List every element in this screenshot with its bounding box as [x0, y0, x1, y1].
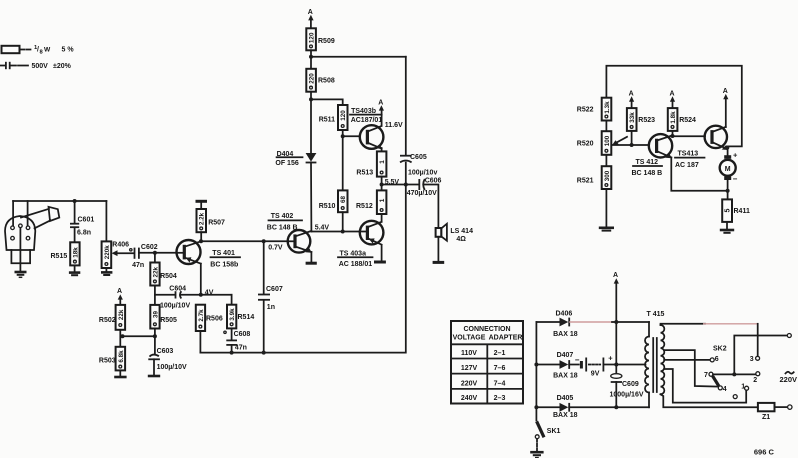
- wire primary top to terminal 3: [661, 324, 706, 325]
- ground pickup: [15, 271, 27, 274]
- svg-text:R515: R515: [51, 253, 68, 260]
- wire tap to terminal 4: [664, 350, 718, 387]
- svg-text:240V: 240V: [461, 395, 478, 402]
- resistor R512: [377, 190, 387, 214]
- svg-text:CONNECTION: CONNECTION: [463, 326, 510, 333]
- wire R503 to ground: [119, 370, 121, 375]
- wiper arrow R520: [616, 137, 627, 143]
- svg-text:D407: D407: [557, 352, 574, 359]
- wire R512 to TS403a collector: [381, 214, 383, 222]
- node R504 top: [153, 251, 157, 255]
- svg-text:500V: 500V: [32, 63, 49, 70]
- svg-text:+: +: [733, 150, 738, 159]
- svg-text:7–6: 7–6: [494, 365, 506, 372]
- svg-text:BC 148 B: BC 148 B: [632, 170, 663, 177]
- svg-text:0.7V: 0.7V: [268, 244, 283, 251]
- svg-text:D406: D406: [556, 311, 573, 318]
- capacitor C604: [155, 294, 175, 296]
- ground R406: [101, 271, 112, 274]
- node R510 bottom: [341, 230, 345, 234]
- svg-text:M: M: [725, 166, 731, 173]
- voltage adapter table: [451, 321, 523, 404]
- wire R406 top: [105, 201, 107, 241]
- resistor R524: [668, 108, 678, 131]
- wire R411 to ground: [726, 222, 728, 228]
- wire R522 to R520: [605, 121, 607, 132]
- svg-text:6: 6: [715, 356, 719, 363]
- svg-text:9V: 9V: [591, 370, 600, 377]
- svg-text:D405: D405: [557, 395, 574, 402]
- svg-text:47n: 47n: [235, 345, 247, 352]
- svg-text:39: 39: [152, 311, 159, 319]
- wire input top rail: [13, 200, 106, 202]
- node 4V: [199, 293, 203, 297]
- capacitor C605: [400, 155, 412, 157]
- svg-text:6.8k: 6.8k: [118, 350, 125, 363]
- svg-text:A: A: [613, 272, 618, 279]
- wire speaker to bar: [437, 237, 439, 261]
- wire R520 to R521: [605, 155, 607, 166]
- node supply tee: [309, 55, 313, 59]
- wire TS403a emitter to bar: [381, 245, 383, 261]
- node TS403b base tee: [341, 134, 345, 138]
- svg-text:2.7k: 2.7k: [198, 309, 205, 322]
- fuse Z1: [758, 403, 775, 411]
- resistor R506: [196, 305, 205, 331]
- resistor R509: [306, 28, 316, 50]
- svg-text:TS 401: TS 401: [212, 250, 235, 257]
- svg-text:220V: 220V: [461, 380, 478, 387]
- svg-text:2: 2: [753, 377, 757, 384]
- diode D405: [536, 406, 559, 408]
- pickup pin 3: [26, 226, 30, 230]
- artifact circle before C602: [130, 249, 132, 251]
- node C608 bus: [230, 351, 234, 355]
- transistor TS412: [649, 134, 672, 157]
- resistor R504: [154, 253, 156, 263]
- wiper arrow R406: [112, 250, 118, 256]
- svg-text:A: A: [629, 90, 634, 97]
- wire collector node to TS402 base: [201, 240, 288, 242]
- svg-text:110V: 110V: [461, 350, 477, 357]
- svg-text:R411: R411: [734, 208, 750, 215]
- svg-text:C601: C601: [78, 217, 95, 224]
- wire R508 down to D404: [310, 92, 312, 153]
- pickup pin 4: [11, 236, 15, 240]
- legend resistor symbol: [2, 45, 75, 56]
- wire tap to terminal 6: [664, 359, 710, 361]
- svg-text:TS 412: TS 412: [636, 159, 659, 166]
- wire pickup screen cup: [11, 228, 30, 271]
- svg-text:68: 68: [340, 196, 347, 204]
- svg-text:A: A: [308, 9, 313, 16]
- svg-text:2–3: 2–3: [494, 395, 506, 402]
- wire TS412 emitter to motor node: [671, 157, 727, 190]
- svg-text:11.6V: 11.6V: [385, 122, 403, 129]
- svg-text:220k: 220k: [104, 245, 111, 260]
- wire R510 to collector line: [342, 212, 344, 231]
- svg-text:3.9k: 3.9k: [229, 308, 236, 321]
- node C607 top: [262, 239, 266, 243]
- capacitor C603: [150, 355, 159, 357]
- svg-text:AC 187: AC 187: [675, 162, 699, 169]
- resistor R515: [70, 242, 79, 265]
- resistor R522: [602, 98, 612, 121]
- node C607 bus: [262, 351, 266, 355]
- node R511 tee: [309, 97, 313, 101]
- wire TS402 collector node to TS403a base: [311, 231, 359, 233]
- wire pickup pin to top rail: [12, 201, 14, 226]
- svg-text:R512: R512: [356, 203, 373, 210]
- svg-text:470µ/10V: 470µ/10V: [407, 190, 437, 197]
- wire bottom bus: [200, 185, 405, 353]
- svg-text:SK1: SK1: [547, 428, 561, 435]
- node C601 top: [73, 199, 77, 203]
- transistor TS403b: [360, 125, 384, 149]
- svg-text:A: A: [670, 90, 675, 97]
- wire C601 to R515: [74, 227, 76, 242]
- bar terminal R507 top: [196, 200, 208, 203]
- svg-text:6.8n: 6.8n: [77, 230, 91, 237]
- svg-text:ADAPTER: ADAPTER: [489, 335, 523, 342]
- wire C601 column: [74, 201, 76, 224]
- svg-text:R502: R502: [99, 317, 116, 324]
- svg-text:TS413: TS413: [678, 150, 699, 157]
- wire R513 to R512: [381, 177, 383, 191]
- bar terminal TS403a emitter: [374, 261, 386, 264]
- resistor R505: [150, 305, 159, 329]
- svg-text:22k: 22k: [152, 267, 159, 278]
- bar terminal speaker: [433, 261, 445, 264]
- svg-text:+: +: [608, 353, 613, 362]
- svg-text:100µ/10V: 100µ/10V: [160, 302, 190, 309]
- svg-text:R506: R506: [206, 316, 223, 323]
- tone arm: [21, 209, 51, 229]
- node R502/R503: [121, 334, 125, 338]
- svg-text:VOLTAGE: VOLTAGE: [453, 335, 486, 342]
- wire R406 to ground: [105, 268, 107, 271]
- wire 4V node to R514 column: [201, 294, 232, 296]
- svg-text:R505: R505: [160, 317, 177, 324]
- wire primary bottom to Z1: [661, 394, 758, 407]
- svg-text:R509: R509: [318, 38, 335, 45]
- transistor TS402: [288, 230, 311, 253]
- wire anode rail: [535, 322, 537, 420]
- wire TS403b emitter to R513: [381, 148, 383, 151]
- svg-text:120: 120: [340, 110, 347, 121]
- svg-text:BAX 18: BAX 18: [553, 373, 578, 380]
- capacitor C606: [418, 179, 420, 190]
- legend capacitor symbol: [0, 62, 72, 70]
- svg-text:220V: 220V: [780, 375, 798, 384]
- svg-text:R523: R523: [638, 117, 655, 124]
- svg-text:5: 5: [725, 209, 732, 213]
- switch SK1: [537, 421, 544, 437]
- capacitor C608: [231, 328, 233, 340]
- wire R502/R503 junction line: [123, 335, 155, 337]
- svg-text:BC 158b: BC 158b: [210, 262, 238, 269]
- resistor R514: [227, 305, 236, 329]
- svg-text:C606: C606: [425, 178, 442, 185]
- svg-text:7–4: 7–4: [494, 380, 506, 387]
- svg-text:C605: C605: [410, 154, 427, 161]
- ground R411: [720, 229, 734, 232]
- svg-text:1.3k: 1.3k: [604, 101, 611, 114]
- svg-text:4Ω: 4Ω: [456, 236, 466, 243]
- node R523 base: [630, 143, 634, 147]
- wire base TS403b: [343, 135, 360, 137]
- svg-text:3: 3: [750, 356, 754, 363]
- svg-text:C609: C609: [622, 381, 639, 388]
- wire R515 to ground: [74, 265, 76, 271]
- capacitor C601: [70, 223, 79, 225]
- resistor R523: [627, 108, 637, 131]
- svg-text:4: 4: [723, 386, 727, 393]
- motor M: [724, 155, 731, 159]
- svg-text:R510: R510: [319, 203, 336, 210]
- ground C603: [148, 375, 160, 378]
- resistor R511: [338, 105, 348, 130]
- node TS401 collector: [199, 239, 203, 243]
- svg-text:300: 300: [604, 170, 611, 181]
- wire C603 to ground: [153, 359, 155, 374]
- svg-text:OF 156: OF 156: [275, 160, 298, 167]
- svg-text:R508: R508: [318, 78, 335, 85]
- svg-text:R504: R504: [160, 273, 177, 280]
- label 220V mains: [786, 372, 794, 374]
- svg-text:5.4V: 5.4V: [315, 224, 330, 231]
- svg-text:100µ/10v: 100µ/10v: [408, 170, 437, 177]
- wire TS413 emitter to motor: [727, 149, 729, 155]
- svg-text:LS 414: LS 414: [450, 228, 473, 235]
- svg-text:−: −: [575, 356, 580, 365]
- transistor TS403a: [360, 221, 384, 245]
- wire R504 to C604 node: [154, 286, 156, 305]
- svg-text:R524: R524: [679, 117, 696, 124]
- svg-text:AC 188/01: AC 188/01: [339, 261, 373, 268]
- svg-text:7: 7: [704, 372, 708, 379]
- wire R524 to TS413 base: [672, 131, 674, 136]
- node C606 line: [404, 183, 408, 187]
- wire C606 to speaker: [425, 185, 439, 228]
- svg-text:T 415: T 415: [647, 311, 665, 318]
- svg-text:C602: C602: [141, 244, 158, 251]
- wire R521 to ground: [605, 189, 607, 227]
- svg-text:BAX 18: BAX 18: [553, 412, 578, 419]
- wire 5.5V node to C606: [382, 184, 419, 186]
- wire R514 column: [231, 295, 233, 305]
- resistor R508: [306, 69, 316, 92]
- svg-text:−: −: [733, 175, 738, 184]
- node R502 branch: [153, 334, 157, 338]
- svg-text:120: 120: [309, 32, 316, 43]
- capacitor C602: [134, 248, 136, 259]
- wire D404 to TS402 collector: [310, 163, 312, 232]
- wire R506 to bus: [199, 331, 201, 353]
- svg-text:R503: R503: [99, 358, 116, 365]
- node 5.5V: [380, 183, 384, 187]
- svg-text:47n: 47n: [132, 262, 144, 269]
- ground R521: [599, 227, 614, 230]
- svg-text:±20%: ±20%: [53, 63, 72, 70]
- wire R511 to R510: [342, 130, 344, 190]
- wire to R511: [311, 99, 343, 105]
- wire motor block top rail: [606, 66, 741, 147]
- svg-text:C608: C608: [234, 331, 251, 338]
- resistor R521: [602, 166, 612, 189]
- svg-text:100: 100: [604, 135, 611, 146]
- transistor TS413: [705, 126, 727, 148]
- wire R523 to base: [631, 131, 633, 145]
- svg-text:R522: R522: [577, 107, 594, 114]
- pickup pin 1: [11, 226, 15, 230]
- diode D406: [536, 321, 559, 323]
- battery 9V: [569, 364, 579, 366]
- potentiometer R406: [102, 241, 112, 268]
- svg-text:1: 1: [379, 160, 386, 164]
- ground R503: [114, 376, 126, 379]
- wire TS402 emitter to rail bar: [310, 252, 312, 262]
- svg-text:2–1: 2–1: [494, 350, 506, 357]
- svg-text:TS 402: TS 402: [271, 213, 294, 220]
- svg-text:5 %: 5 %: [62, 47, 75, 54]
- primary winding right: [661, 325, 665, 394]
- potentiometer R520: [602, 131, 612, 155]
- resistor R411: [722, 199, 732, 222]
- svg-text:C604: C604: [169, 286, 186, 293]
- svg-text:R406: R406: [112, 242, 129, 249]
- artifact circle before C608: [224, 331, 226, 333]
- wire R509 to R508: [310, 50, 312, 69]
- svg-text:100µ/10V: 100µ/10V: [157, 364, 187, 371]
- svg-text:1n: 1n: [267, 304, 275, 311]
- svg-text:A: A: [117, 288, 122, 295]
- svg-text:A: A: [723, 88, 728, 95]
- wire supply to C605 column: [311, 56, 406, 58]
- svg-text:1: 1: [379, 198, 386, 202]
- ground R515: [69, 271, 80, 274]
- diode D404: [306, 153, 317, 162]
- pickup pin 5: [26, 236, 30, 240]
- resistor R507: [197, 209, 207, 232]
- wire mains top lead: [734, 336, 787, 375]
- svg-text:1000µ/16V: 1000µ/16V: [610, 392, 644, 399]
- wire tap to terminal 1: [664, 369, 746, 403]
- svg-text:18k: 18k: [72, 247, 79, 258]
- svg-text:R520: R520: [577, 141, 594, 148]
- wire R507 to collector node: [200, 232, 202, 241]
- ground SK1: [530, 451, 543, 454]
- wire TS412 base: [613, 144, 650, 146]
- resistor R503: [116, 347, 126, 371]
- svg-text:SK2: SK2: [713, 345, 727, 352]
- wire motor to R411: [727, 180, 729, 199]
- resistor R513: [377, 151, 387, 176]
- wire C602 to TS401 base: [139, 252, 177, 254]
- svg-text:127V: 127V: [461, 365, 478, 372]
- svg-text:R513: R513: [356, 170, 373, 177]
- svg-text:R521: R521: [577, 177, 594, 184]
- svg-text:R514: R514: [238, 314, 255, 321]
- svg-text:C607: C607: [266, 286, 283, 293]
- transformer core: [652, 338, 654, 392]
- wire TS401 emitter down: [200, 264, 202, 295]
- transistor TS401: [177, 240, 201, 264]
- svg-text:696 C: 696 C: [754, 448, 775, 457]
- svg-text:220: 220: [309, 73, 316, 84]
- svg-text:1.8k: 1.8k: [670, 111, 677, 124]
- svg-text:1: 1: [741, 383, 745, 390]
- loudspeaker LS414: [436, 228, 442, 237]
- bar terminal TS402 emitter: [306, 262, 317, 265]
- capacitor C607: [263, 241, 265, 294]
- svg-text:C603: C603: [157, 348, 174, 355]
- svg-text:2.2k: 2.2k: [199, 212, 206, 225]
- svg-text:W: W: [44, 47, 51, 54]
- svg-text:BC 148 B: BC 148 B: [267, 225, 298, 232]
- wire pickup pin to top rail: [27, 201, 29, 226]
- wire R502 to R503: [119, 330, 121, 347]
- wire R505 to C603: [154, 329, 156, 354]
- diode D407: [536, 364, 559, 366]
- svg-text:Z1: Z1: [762, 414, 770, 421]
- svg-text:A: A: [378, 99, 383, 106]
- pickup pin 2: [19, 224, 23, 228]
- resistor R510: [338, 190, 348, 212]
- svg-text:R507: R507: [208, 219, 225, 226]
- pickup connector body: [5, 216, 35, 250]
- capacitor C609: [611, 374, 622, 379]
- svg-text:R511: R511: [319, 117, 335, 124]
- svg-text:BAX 18: BAX 18: [553, 331, 578, 338]
- secondary winding left: [648, 322, 650, 337]
- svg-text:33k: 33k: [629, 112, 636, 123]
- svg-text:AC187/01: AC187/01: [351, 117, 383, 124]
- svg-text:22k: 22k: [118, 309, 125, 320]
- resistor R502: [116, 305, 126, 330]
- wire C605 to node: [405, 163, 407, 185]
